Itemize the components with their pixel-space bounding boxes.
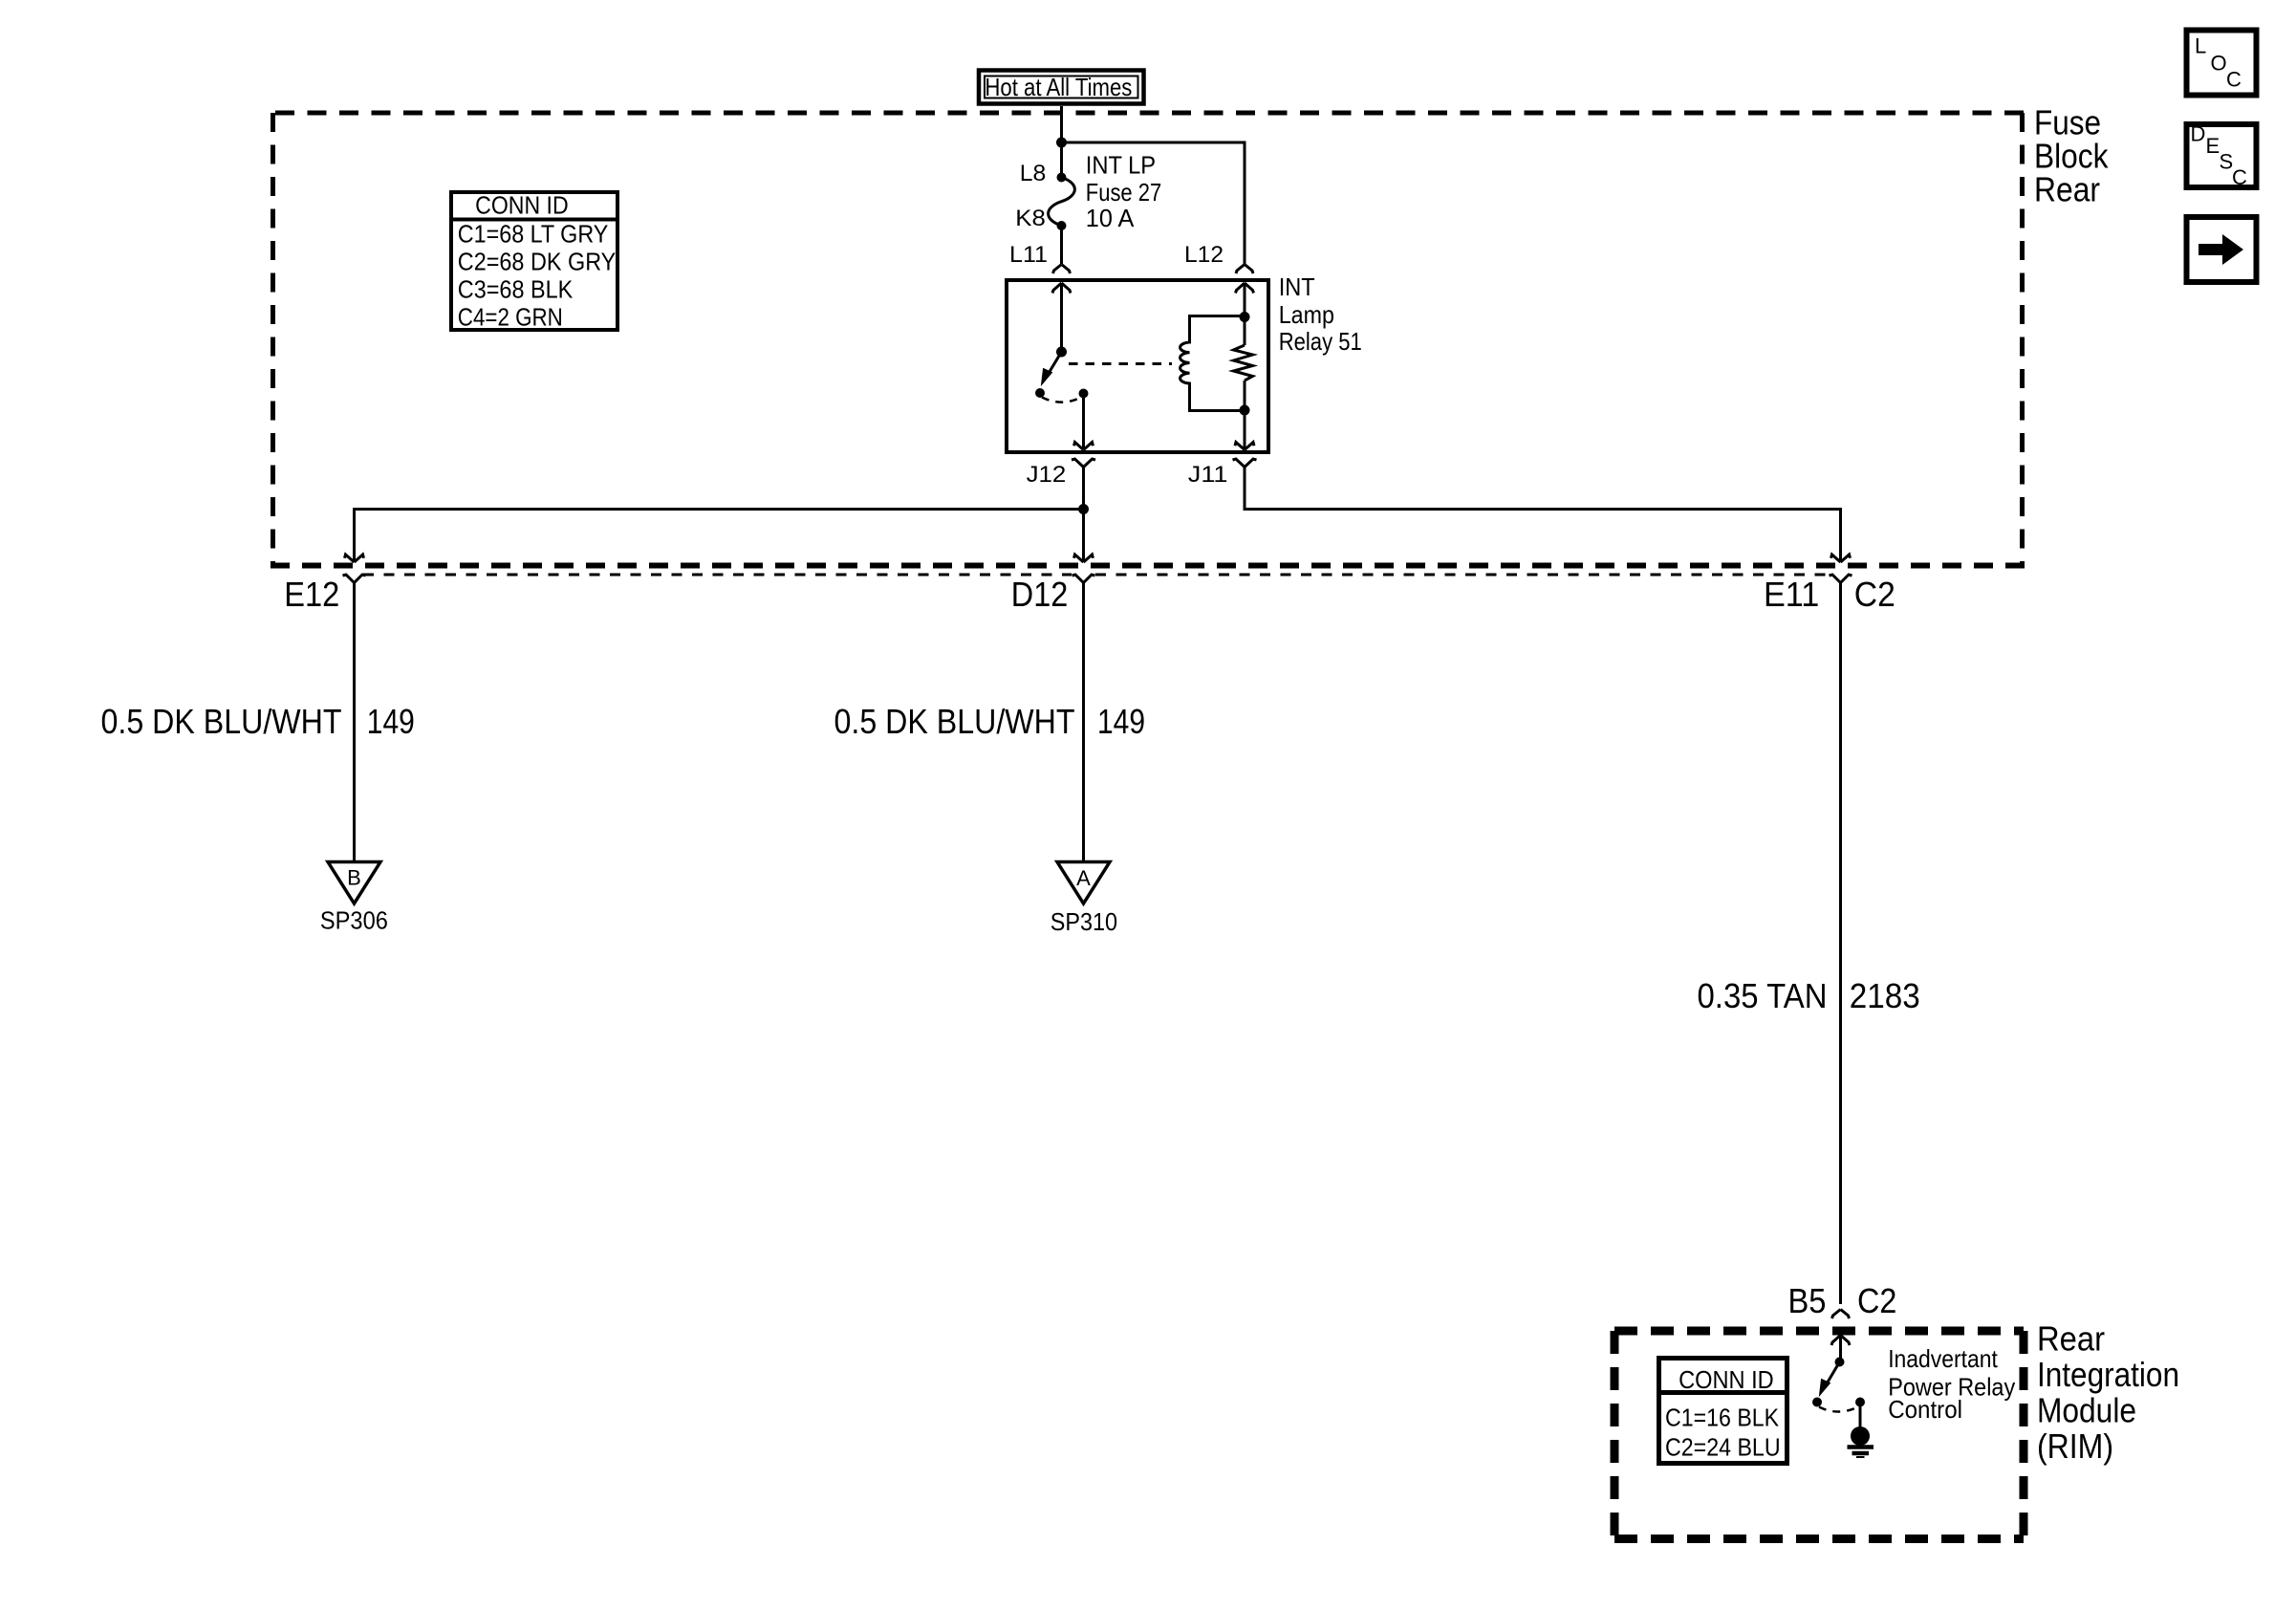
svg-text:E: E	[2206, 134, 2220, 158]
wire D12 drop	[1082, 510, 1085, 562]
svg-text:Lamp: Lamp	[1279, 300, 1334, 329]
svg-text:C: C	[2232, 165, 2247, 189]
svg-text:L: L	[2195, 34, 2206, 58]
wire bus to E12	[355, 510, 1084, 562]
svg-text:CONN ID: CONN ID	[1679, 1365, 1774, 1394]
relay switch pivot dot	[1056, 347, 1067, 358]
svg-text:SP306: SP306	[320, 906, 388, 935]
svg-text:A: A	[1076, 866, 1091, 890]
RIM dashed box left edge	[1611, 1331, 1619, 1539]
connector receptacle B5 (above RIM)	[1832, 1310, 1850, 1319]
svg-text:0.35 TAN: 0.35 TAN	[1698, 976, 1828, 1015]
svg-text:C2: C2	[1857, 1281, 1896, 1320]
svg-text:L11: L11	[1009, 242, 1048, 268]
fuse block dashed box left edge	[271, 113, 275, 565]
wire J11 to E11	[1245, 475, 1841, 561]
fuse block dashed box top edge	[275, 111, 2025, 116]
splice triangle B	[328, 862, 380, 904]
arrow into D12	[1074, 555, 1094, 562]
RIM input up-arrow	[1831, 1336, 1850, 1346]
svg-text:Integration: Integration	[2037, 1355, 2179, 1394]
svg-text:C3=68 BLK: C3=68 BLK	[458, 275, 574, 304]
RIM dashed box top edge	[1614, 1327, 2024, 1336]
relay switch common wire	[1060, 284, 1063, 353]
fuse 27 element (S-curve)	[1049, 178, 1075, 227]
svg-text:Control: Control	[1888, 1395, 1962, 1424]
relay coil	[1180, 316, 1245, 411]
wire E11 down to RIM B5	[1839, 590, 1842, 1304]
connector receptacle J11 (below relay)	[1233, 459, 1257, 475]
relay coil bottom dot	[1240, 405, 1250, 416]
relay resistor zigzag	[1234, 345, 1253, 381]
svg-text:C4=2 GRN: C4=2 GRN	[458, 303, 563, 332]
svg-text:C2=68 DK GRY: C2=68 DK GRY	[458, 248, 617, 276]
svg-text:Module: Module	[2037, 1391, 2136, 1430]
svg-text:INT: INT	[1279, 272, 1315, 301]
svg-text:D: D	[2191, 122, 2206, 146]
wire D12 down to splice SP310	[1082, 590, 1085, 860]
fuse terminal dot L8	[1057, 173, 1067, 183]
svg-text:C: C	[2226, 68, 2242, 92]
relay switch blade	[1048, 352, 1062, 375]
svg-text:2183: 2183	[1850, 976, 1920, 1015]
wire junction down to fuse terminal L8	[1060, 142, 1063, 178]
svg-text:0.5 DK BLU/WHT: 0.5 DK BLU/WHT	[101, 702, 342, 741]
wire label 0.5 DK BLU/WHT 149 (left)	[101, 702, 415, 741]
arrow into E12	[345, 555, 364, 562]
svg-text:0.5 DK BLU/WHT: 0.5 DK BLU/WHT	[834, 702, 1075, 741]
label Inadvertant Power Relay Control	[1888, 1344, 2015, 1424]
svg-text:S: S	[2220, 150, 2234, 174]
svg-text:E12: E12	[284, 575, 339, 614]
wire J12 down to splice bus	[1082, 475, 1085, 510]
svg-text:O: O	[2211, 52, 2227, 76]
RIM dashed box right edge	[2020, 1331, 2028, 1539]
relay switch NO contact dot	[1035, 388, 1045, 398]
fuse block dashed box right edge	[2020, 113, 2025, 565]
relay output down-arrow	[1074, 443, 1094, 450]
label Fuse Block Rear	[2034, 103, 2109, 209]
fuse terminal dot K8	[1057, 221, 1067, 230]
wire branch to relay pin L12	[1062, 142, 1245, 264]
splice triangle A	[1057, 862, 1110, 904]
svg-text:Inadvertant: Inadvertant	[1888, 1344, 1998, 1373]
svg-text:149: 149	[367, 702, 415, 741]
svg-text:SP310: SP310	[1051, 907, 1117, 936]
RIM dashed box bottom edge	[1614, 1535, 2024, 1543]
node bus junction dot	[1078, 504, 1089, 514]
svg-text:149: 149	[1097, 702, 1145, 741]
ground symbol	[1848, 1426, 1874, 1457]
svg-text:Rear: Rear	[2037, 1319, 2105, 1359]
node junction dot	[1056, 138, 1067, 148]
svg-text:C1=16 BLK: C1=16 BLK	[1665, 1404, 1780, 1432]
wire label 0.5 DK BLU/WHT 149 (middle)	[834, 702, 1146, 741]
svg-text:C1=68 LT GRY: C1=68 LT GRY	[458, 220, 609, 249]
svg-text:J11: J11	[1188, 462, 1228, 488]
RIM switch common wire	[1839, 1336, 1842, 1362]
svg-text:Rear: Rear	[2034, 170, 2100, 209]
svg-text:Relay 51: Relay 51	[1279, 327, 1362, 356]
fuse block dashed box bottom edge	[271, 563, 2025, 569]
connector receptacle L11	[1053, 265, 1071, 274]
relay actuation dashed link	[1069, 362, 1172, 365]
RIM ground wire	[1859, 1403, 1862, 1429]
RIM switch blade	[1826, 1362, 1840, 1386]
wire label 0.35 TAN 2183	[1698, 976, 1920, 1015]
RIM switch blade arrowhead	[1820, 1380, 1830, 1396]
svg-text:10 A: 10 A	[1086, 204, 1135, 232]
relay switch blade arrowhead	[1042, 369, 1052, 385]
arrow into E11	[1831, 555, 1851, 562]
relay resistor wire lower	[1244, 381, 1246, 449]
connector receptacle E12	[343, 575, 366, 590]
relay output wire to J12	[1082, 394, 1085, 450]
svg-text:L8: L8	[1020, 161, 1047, 186]
svg-text:J12: J12	[1027, 462, 1067, 488]
wire from hot box down to junction	[1060, 106, 1063, 142]
svg-text:K8: K8	[1015, 206, 1046, 231]
RIM switch travel dashed arc	[1819, 1407, 1858, 1412]
relay coil-side down-arrow	[1235, 443, 1254, 450]
connector receptacle E11	[1830, 575, 1852, 590]
relay resistor wire upper	[1244, 284, 1246, 346]
RIM switch pivot dot	[1835, 1358, 1845, 1367]
relay switch travel dashed arc	[1042, 398, 1080, 403]
connector receptacle D12	[1072, 575, 1095, 590]
svg-text:D12: D12	[1011, 575, 1069, 614]
label Rear Integration Module (RIM)	[2037, 1319, 2179, 1467]
svg-text:INT LP: INT LP	[1086, 151, 1156, 180]
svg-text:Hot at All Times: Hot at All Times	[985, 73, 1132, 101]
connector interface thin dashed line (E/D row)	[363, 574, 1831, 577]
label INT Lamp Relay 51	[1279, 272, 1362, 356]
svg-text:E11: E11	[1764, 575, 1819, 614]
svg-text:Fuse 27: Fuse 27	[1086, 178, 1161, 207]
connector receptacle J12 (below relay)	[1072, 459, 1095, 475]
svg-text:B5: B5	[1788, 1281, 1827, 1320]
wire E12 down to splice SP306	[353, 590, 356, 860]
svg-text:(RIM): (RIM)	[2037, 1426, 2113, 1466]
relay pin 30 up-arrow (left, inside box top)	[1052, 283, 1071, 294]
wire K8 down to L11	[1060, 226, 1063, 264]
relay output contact dot	[1079, 389, 1089, 399]
RIM ground contact dot	[1855, 1398, 1865, 1407]
relay coil top dot	[1240, 312, 1250, 322]
svg-text:C2=24 BLU: C2=24 BLU	[1665, 1433, 1781, 1462]
RIM switch contact dot	[1812, 1398, 1822, 1407]
relay pin 86 up-arrow (right, inside box top)	[1236, 283, 1254, 294]
label INT LP Fuse 27 10 A	[1086, 151, 1161, 233]
svg-text:B: B	[347, 866, 361, 890]
connector receptacle L12	[1236, 265, 1253, 274]
svg-text:L12: L12	[1184, 242, 1224, 268]
svg-text:CONN ID: CONN ID	[475, 191, 569, 220]
svg-text:C2: C2	[1854, 575, 1895, 614]
